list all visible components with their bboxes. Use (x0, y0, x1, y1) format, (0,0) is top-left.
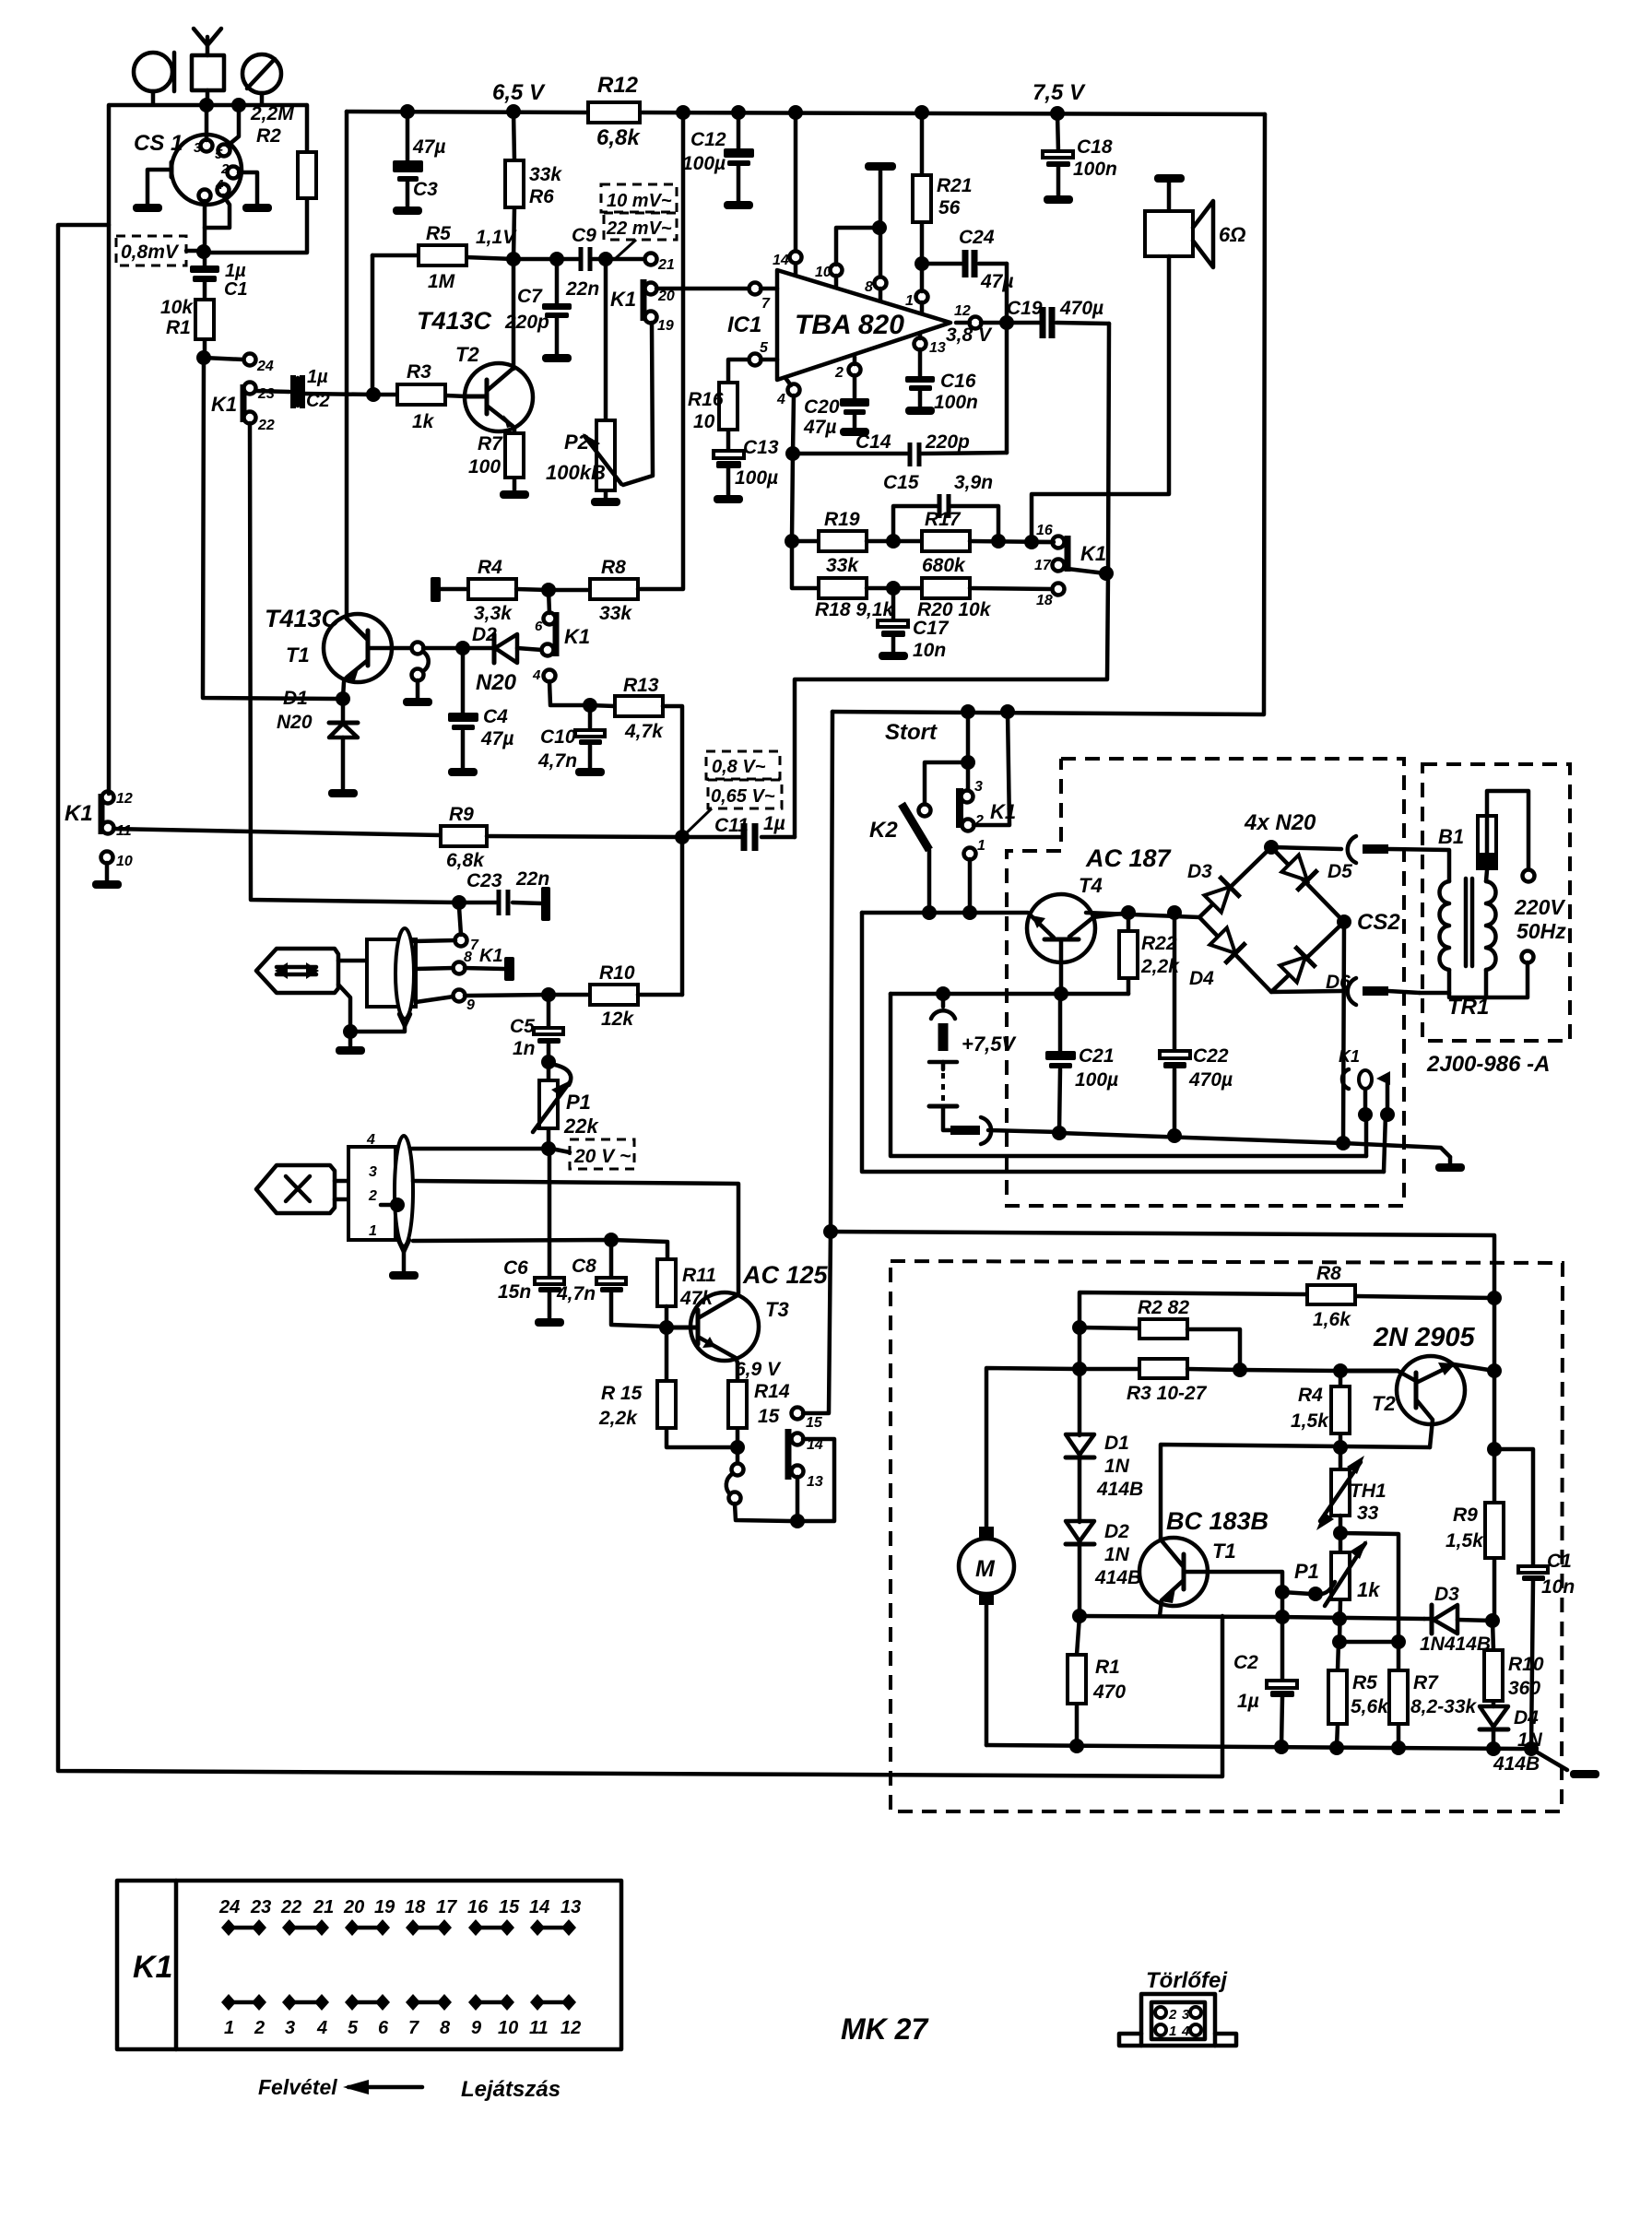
ground motor rail (1570, 1770, 1599, 1778)
capacitor C13 100µ electrolytic (714, 437, 779, 495)
svg-text:7,5 V: 7,5 V (1032, 80, 1086, 105)
svg-text:4: 4 (532, 667, 541, 683)
svg-text:4: 4 (776, 392, 785, 407)
ground C6 (535, 1318, 564, 1327)
svg-text:C16: C16 (940, 371, 976, 392)
ground C7 (542, 354, 572, 362)
capacitor C1 1µ (190, 261, 248, 300)
svg-text:BC 183B: BC 183B (1166, 1507, 1268, 1535)
record-play head connector plug (256, 928, 416, 1032)
svg-text:R7: R7 (1413, 1672, 1439, 1693)
svg-text:19: 19 (657, 318, 674, 334)
svg-text:1: 1 (977, 838, 985, 854)
svg-text:220V: 220V (1514, 895, 1565, 919)
svg-text:R3: R3 (407, 361, 431, 383)
wire motor zero rail (986, 1745, 1567, 1770)
svg-text:3: 3 (285, 2018, 295, 2038)
svg-text:K1: K1 (65, 801, 93, 826)
motor M (959, 1527, 1014, 1745)
rectifier bridge 4xN20 (1187, 810, 1400, 993)
capacitor C9 22n (513, 225, 606, 300)
ground zero rail (1435, 1157, 1465, 1172)
connector CS1 (171, 135, 242, 205)
svg-text:1N: 1N (1104, 1544, 1130, 1565)
svg-text:1N: 1N (1104, 1456, 1130, 1477)
svg-text:T2: T2 (1372, 1392, 1396, 1415)
wire CS1 pin4 down (205, 195, 230, 228)
svg-text:8: 8 (464, 950, 472, 965)
pin 10 (815, 228, 879, 288)
svg-text:22k: 22k (563, 1115, 599, 1138)
svg-text:13: 13 (929, 340, 946, 356)
svg-text:22: 22 (257, 418, 275, 433)
wire head pin1 to C8 node (413, 1240, 667, 1259)
ground C10 (575, 768, 605, 776)
wire bridge right down (1343, 922, 1344, 1143)
diode D2 N20 (463, 624, 542, 695)
capacitor C7 220p (504, 259, 572, 354)
svg-text:AC 187: AC 187 (1085, 844, 1173, 872)
wire TH1 node to R7 drop (1340, 1533, 1398, 1642)
switch block contacts bottom row (221, 1994, 581, 2038)
resistor R3 1k (373, 361, 466, 432)
capacitor C14 220p (793, 431, 1007, 466)
svg-text:3: 3 (974, 779, 983, 795)
node rail junctions (400, 104, 415, 119)
svg-text:22: 22 (280, 1897, 301, 1917)
contact K1 pin 1 (964, 838, 986, 913)
svg-text:7: 7 (408, 2018, 419, 2038)
svg-text:13: 13 (560, 1897, 581, 1917)
svg-text:R13: R13 (623, 675, 659, 696)
svg-text:15: 15 (758, 1406, 780, 1427)
svg-text:4: 4 (215, 177, 224, 193)
svg-text:17: 17 (436, 1897, 457, 1917)
wire to pin 21 (606, 257, 644, 262)
node R18-R20 (886, 581, 901, 596)
node R3 left (1072, 1362, 1087, 1376)
transformer TR1 primary coil (1420, 881, 1449, 993)
ground pin10 (105, 863, 110, 880)
svg-text:1µ: 1µ (307, 367, 328, 387)
ground speaker top (1154, 174, 1185, 211)
wire head pin7 lead (414, 940, 455, 941)
svg-text:P1: P1 (1294, 1560, 1319, 1583)
svg-text:C7: C7 (517, 286, 543, 307)
transistor T2 T413C (417, 259, 533, 431)
svg-text:R7: R7 (478, 433, 503, 454)
ground CS1 pin2 (242, 204, 272, 212)
diode D1 N20 (277, 688, 358, 789)
potentiometer P1 22k (533, 1062, 599, 1149)
svg-text:R18 9,1k: R18 9,1k (815, 599, 895, 620)
wire CS1 pin2 to ground (239, 172, 257, 204)
svg-text:24: 24 (256, 359, 274, 374)
svg-text:4: 4 (316, 2018, 327, 2038)
erase head connector plug X (256, 1132, 413, 1271)
svg-text:5: 5 (348, 2018, 359, 2038)
svg-text:R8: R8 (1316, 1263, 1341, 1284)
wire C2 to R3 junction (304, 394, 373, 395)
wire rail left down to T1 collector (345, 112, 349, 618)
svg-text:4x N20: 4x N20 (1244, 810, 1316, 835)
svg-text:24: 24 (218, 1897, 240, 1917)
wire pin17 to node (1068, 569, 1105, 573)
capacitor C6 15n (498, 1149, 564, 1318)
contact K1 pin 15 (792, 1231, 832, 1431)
label 220V 50Hz (1514, 895, 1566, 943)
svg-text:18: 18 (1036, 593, 1053, 608)
loudspeaker 6 ohm (1145, 201, 1245, 267)
ground erase head (389, 1271, 419, 1280)
svg-text:T4: T4 (1079, 874, 1103, 897)
svg-text:6: 6 (535, 619, 543, 634)
wire left border (58, 225, 1222, 1776)
node 1,1V (506, 252, 521, 266)
ground head (336, 1032, 365, 1055)
pin 1 (905, 268, 928, 313)
battery +7,5V (929, 994, 1017, 1130)
capacitor C2 1µ (1233, 1652, 1297, 1746)
svg-text:D5: D5 (1327, 861, 1352, 882)
pin 13 (914, 333, 946, 376)
svg-text:12: 12 (954, 303, 971, 319)
resistor R6 33k (505, 112, 562, 259)
resistor R8 1,6k motor (1080, 1263, 1494, 1330)
resistor R16 10 (688, 360, 750, 452)
svg-text:R4: R4 (1298, 1385, 1323, 1406)
svg-text:4: 4 (1181, 2023, 1190, 2039)
wire supply right box edge down (1264, 114, 1265, 714)
svg-text:C21: C21 (1079, 1045, 1115, 1067)
svg-text:R9: R9 (449, 804, 474, 825)
label 0,8mV dashed box (116, 236, 201, 265)
svg-text:T413C: T413C (265, 605, 340, 632)
svg-text:C22: C22 (1193, 1045, 1229, 1067)
svg-text:414B: 414B (1096, 1479, 1143, 1500)
wire mains switch to lines (1366, 1115, 1386, 1172)
svg-text:1: 1 (905, 293, 914, 309)
switch K1 pins 23 22 (211, 383, 275, 434)
resistor R22 2,2k (1119, 913, 1180, 994)
node R9 R10 D3 (1485, 1613, 1500, 1628)
node mains switch drops (1358, 1107, 1373, 1122)
battery plug connector (950, 1117, 1058, 1144)
svg-text:C1: C1 (1547, 1551, 1572, 1572)
svg-text:56: 56 (938, 197, 961, 218)
pin 5 (749, 340, 778, 366)
svg-text:K1: K1 (610, 288, 636, 311)
svg-text:2: 2 (1168, 2007, 1177, 2023)
svg-text:R17: R17 (925, 509, 962, 530)
wire K2 link (925, 762, 968, 805)
node C7 top (549, 252, 564, 266)
resistor R8 33k (549, 112, 683, 624)
svg-text:2J00-986 -A: 2J00-986 -A (1426, 1052, 1550, 1077)
svg-text:3: 3 (1182, 2007, 1190, 2023)
svg-text:4,7k: 4,7k (624, 721, 664, 742)
svg-text:TBA 820: TBA 820 (795, 310, 904, 340)
svg-text:R21: R21 (937, 175, 973, 196)
diode D3 1N414B (1420, 1584, 1493, 1655)
svg-text:12: 12 (560, 2018, 581, 2038)
svg-text:CS2: CS2 (1357, 910, 1400, 935)
node head ground (343, 1024, 358, 1039)
power supply dashed box (1007, 759, 1404, 1206)
node P1 bottom motor (1332, 1611, 1347, 1626)
svg-text:D4: D4 (1514, 1707, 1539, 1728)
switch K2 (869, 804, 931, 913)
wire pin4 node down to R19 row (792, 454, 793, 540)
contact link T1 base (412, 643, 429, 699)
wire R18 row left (792, 541, 819, 588)
node D2 bottom (1072, 1609, 1087, 1623)
motor control dashed box (891, 1261, 1563, 1811)
wire battery line left drop (891, 994, 1366, 1156)
node K2 branch (961, 704, 975, 719)
svg-text:100n: 100n (1073, 159, 1117, 180)
svg-text:2: 2 (834, 365, 844, 381)
resistor R9 6,8k (441, 804, 682, 871)
node C10 R13 (583, 698, 597, 713)
svg-text:3,3k: 3,3k (474, 603, 513, 624)
capacitor C23 22n (452, 868, 550, 921)
svg-text:6Ω: 6Ω (1219, 223, 1245, 246)
resistor R18 9,1k (815, 578, 922, 620)
node R4 TH1 junction (1333, 1440, 1348, 1455)
node R7 top (1391, 1634, 1406, 1649)
capacitor C4 47µ electrolytic (448, 648, 513, 768)
svg-text:K1: K1 (990, 800, 1016, 823)
wire bridge bottom to connector (1271, 991, 1341, 992)
svg-text:15n: 15n (498, 1281, 531, 1303)
svg-text:K1: K1 (211, 393, 237, 416)
ground C12 (724, 201, 753, 209)
ground C4 (448, 768, 478, 776)
capacitor C24 47µ (922, 227, 1013, 292)
pin 7 (749, 283, 778, 313)
resistor R7 8,2-33k (1389, 1642, 1478, 1747)
wire CS1 left tab to ground (147, 170, 171, 204)
svg-text:23: 23 (250, 1897, 271, 1917)
wire pin11 to R9 line (113, 829, 441, 835)
ground R7 (500, 490, 529, 499)
wire feedback net C19 down left to C11 (795, 324, 1109, 837)
wire speaker to pin16 (1032, 256, 1169, 542)
svg-text:R14: R14 (754, 1381, 790, 1402)
node R9 top (1487, 1442, 1502, 1457)
switch K1 pins 20 19 (610, 279, 675, 334)
svg-text:5,6k: 5,6k (1351, 1696, 1389, 1717)
node K2 link (961, 755, 975, 770)
svg-text:33k: 33k (599, 603, 632, 624)
resistor R9 1,5k motor (1445, 1449, 1504, 1621)
svg-text:1k: 1k (412, 411, 435, 432)
svg-text:MK 27: MK 27 (841, 2012, 929, 2046)
svg-text:8,2-33k: 8,2-33k (1410, 1696, 1478, 1717)
node battery top (936, 986, 950, 1001)
svg-text:1µ: 1µ (1237, 1691, 1259, 1712)
pin 4 (776, 378, 800, 454)
node R10 left (541, 987, 556, 1002)
terminal 220V upper (1523, 870, 1535, 882)
wire motor feed horizontal (831, 1232, 1494, 1298)
wire input bus (110, 90, 306, 105)
pin 14 (773, 112, 802, 275)
svg-text:6,9 V: 6,9 V (735, 1359, 782, 1380)
contact K1 pin 7 (455, 907, 480, 953)
svg-text:K1: K1 (1080, 542, 1106, 565)
svg-text:6,5 V: 6,5 V (492, 80, 546, 105)
svg-text:6,8k: 6,8k (596, 125, 641, 150)
svg-text:N20: N20 (476, 670, 517, 695)
node TH1 bottom (1333, 1526, 1348, 1540)
resistor R12 6,8k (588, 73, 641, 150)
ground D1 (328, 789, 358, 797)
connector mains lower (1348, 978, 1420, 1005)
capacitor C19 470µ (1007, 298, 1109, 338)
svg-text:21: 21 (657, 257, 675, 273)
svg-text:47µ: 47µ (412, 136, 445, 158)
svg-text:20: 20 (343, 1897, 364, 1917)
svg-text:680k: 680k (922, 555, 966, 576)
node R19 left (785, 534, 799, 549)
svg-text:C9: C9 (572, 225, 596, 246)
resistor R11 47k (657, 1259, 716, 1327)
node R3 base junction (366, 387, 381, 402)
wire T4 emitter rail (862, 911, 1028, 915)
svg-text:R1: R1 (166, 317, 191, 338)
svg-text:100µ: 100µ (1075, 1069, 1118, 1091)
svg-text:R6: R6 (529, 186, 554, 207)
svg-text:K1: K1 (1339, 1047, 1360, 1066)
capacitor C22 470µ (1160, 913, 1233, 1135)
svg-text:C20: C20 (804, 396, 840, 418)
ground C3 (393, 206, 422, 215)
svg-text:C17: C17 (913, 618, 950, 639)
svg-text:1µ: 1µ (763, 813, 785, 834)
svg-text:3: 3 (369, 1164, 377, 1180)
wire C24 to pin12 node (1005, 264, 1009, 453)
switch block K1 outline (117, 1881, 621, 2049)
svg-text:C6: C6 (503, 1257, 528, 1279)
svg-text:9: 9 (466, 997, 475, 1013)
svg-text:15: 15 (806, 1415, 823, 1431)
svg-text:R19: R19 (824, 509, 860, 530)
svg-text:100: 100 (468, 456, 501, 478)
svg-text:C14: C14 (855, 431, 891, 453)
terminal 220V lower (1449, 951, 1534, 998)
svg-text:1: 1 (369, 1223, 377, 1239)
svg-text:47µ: 47µ (803, 417, 836, 438)
switch K1 pins 14 13 (788, 1429, 834, 1521)
svg-text:R10: R10 (1508, 1654, 1544, 1675)
svg-text:R 15: R 15 (601, 1383, 643, 1404)
svg-text:1,6k: 1,6k (1313, 1309, 1351, 1330)
transistor T2 2N2905 (1340, 1323, 1494, 1447)
erase head Torlofej symbol (1119, 1994, 1236, 2046)
svg-text:C18: C18 (1077, 136, 1113, 158)
svg-text:C3: C3 (413, 179, 438, 200)
capacitor C12 100µ electrolytic (682, 112, 754, 201)
node K2 bottom (922, 905, 937, 920)
ground base link (403, 698, 432, 706)
svg-text:1N414B: 1N414B (1420, 1634, 1491, 1655)
wire head pin3 to T3 collector (413, 1181, 738, 1293)
node R4 R8 junction (541, 583, 556, 597)
node R1 bottom (196, 350, 211, 365)
svg-text:2: 2 (220, 161, 230, 177)
node C21 bottom (1052, 1126, 1067, 1140)
capacitor C3 47µ electrolytic (393, 112, 445, 206)
op-amp IC1 TBA820 triangle (727, 270, 950, 380)
svg-text:P2: P2 (564, 431, 590, 454)
wire R5 left to base line (371, 255, 375, 395)
svg-text:5: 5 (215, 147, 223, 162)
svg-text:B1: B1 (1438, 825, 1464, 848)
potentiometer P1 1k motor (1294, 1533, 1381, 1642)
svg-text:3: 3 (194, 140, 202, 156)
capacitor C15 3,9n parallel branch (883, 472, 998, 541)
node C5 bottom (541, 1055, 556, 1069)
transistor T1 T413C (265, 605, 412, 698)
node T4 base (1054, 986, 1068, 1001)
ground P2 (591, 498, 620, 506)
svg-text:10k: 10k (160, 297, 194, 318)
ground C20 (840, 428, 869, 436)
wire head pin2 to sleeve (381, 1197, 405, 1212)
node C11 R9 junction (675, 830, 690, 844)
svg-text:220p: 220p (925, 431, 970, 453)
wire pin12 vertical to top (107, 105, 112, 794)
capacitor C18 100n (1043, 113, 1117, 195)
svg-text:T3: T3 (765, 1298, 789, 1321)
svg-text:23: 23 (257, 386, 275, 402)
svg-text:TH1: TH1 (1350, 1481, 1386, 1502)
svg-text:Lejátszás: Lejátszás (461, 2077, 560, 2102)
transistor T4 AC187 (1027, 844, 1173, 994)
svg-text:R2 82: R2 82 (1138, 1297, 1189, 1318)
svg-text:R16: R16 (688, 389, 724, 410)
fuse B1 (1438, 791, 1528, 881)
pin 2 (834, 357, 861, 399)
svg-text:6: 6 (378, 2018, 389, 2038)
svg-text:C13: C13 (743, 437, 779, 458)
node T1 base net (455, 641, 470, 655)
svg-text:3,8 V: 3,8 V (946, 324, 993, 346)
resistor R2 2,2M (204, 103, 316, 253)
svg-text:R1: R1 (1095, 1657, 1120, 1678)
node C22 top (1167, 905, 1182, 920)
ground pins 10 8 (865, 162, 896, 277)
svg-text:19: 19 (374, 1897, 395, 1917)
node R19-R17 (886, 534, 901, 549)
pin 12 output (954, 303, 1007, 329)
svg-text:14: 14 (529, 1897, 549, 1917)
wire motor drop (986, 1368, 1080, 1528)
svg-text:1: 1 (224, 2018, 234, 2038)
svg-text:100µ: 100µ (682, 153, 726, 174)
wire pin20 to IC pin7 (656, 287, 749, 291)
resistor R17 680k (922, 509, 1054, 576)
node input bus dots (199, 98, 214, 112)
svg-text:2: 2 (368, 1188, 377, 1204)
svg-text:18: 18 (405, 1897, 426, 1917)
svg-text:9: 9 (471, 2018, 482, 2038)
svg-text:470µ: 470µ (1188, 1069, 1233, 1091)
resistor R19 33k (792, 509, 922, 576)
svg-text:5: 5 (760, 340, 769, 356)
